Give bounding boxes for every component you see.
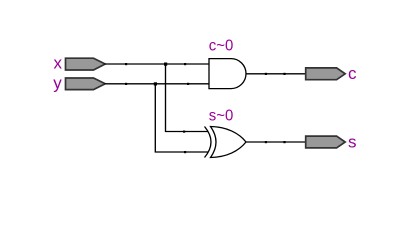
input pin x [66,58,106,70]
waypoint dots y wire [125,83,127,85]
svg-text:s: s [348,132,357,151]
wire x branch to XOR top [166,64,209,132]
svg-text:c: c [348,64,357,83]
waypoint dots s wire [265,141,267,143]
svg-text:c~0: c~0 [209,37,234,54]
waypoint dots XOR stubs [183,131,185,133]
svg-text:y: y [53,73,62,92]
junction on y wire [154,82,157,85]
wire x to AND [105,63,210,65]
input pin y [66,78,106,90]
svg-text:x: x [54,53,63,72]
output pin c [306,68,346,80]
waypoint dots c wire [265,73,267,75]
svg-text:s~0: s~0 [209,108,234,125]
XOR gate s~0 input arc [205,127,212,158]
wire XOR output to pin s [246,141,306,143]
wire y branch to XOR bottom [155,84,208,152]
output pin s [306,136,346,148]
XOR gate s~0 body [211,127,247,158]
AND gate c~0 [209,59,246,89]
waypoint dots x wire [125,63,127,65]
junction on x wire [164,63,167,66]
wire y to AND [105,83,210,85]
wire AND output to pin c [246,73,306,75]
